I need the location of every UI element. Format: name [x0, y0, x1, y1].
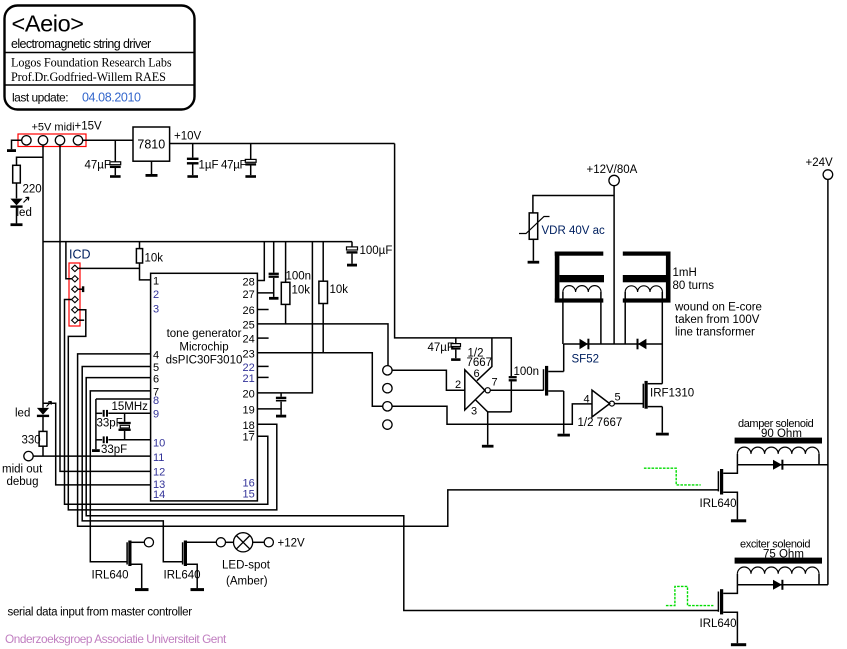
wire +10V down and across	[395, 144, 512, 377]
transistor Q6 IRL640 exciter	[718, 585, 737, 644]
svg-text:21: 21	[243, 373, 255, 385]
ground under Q2	[191, 588, 205, 591]
inductor core right half	[623, 252, 671, 303]
svg-text:27: 27	[243, 289, 255, 301]
crystal 15MHz symbol	[119, 413, 131, 440]
svg-text:1mH: 1mH	[673, 267, 697, 279]
resistor 10k third	[319, 242, 328, 353]
capacitor 100uF on +5V rail	[347, 242, 358, 266]
led D2	[37, 401, 52, 416]
wire pin7 to serial gate	[90, 391, 150, 562]
connector pin circle 4	[73, 136, 82, 145]
svg-text:23: 23	[243, 349, 255, 361]
wire pin6 to exciter gate bus	[86, 378, 718, 611]
capacitor 100n pin19 decoupling	[276, 393, 286, 416]
diode exciter flyback	[773, 580, 782, 590]
ground under VDR	[528, 261, 540, 264]
svg-text:26: 26	[243, 305, 255, 317]
wire resistor 330 to midi node	[42, 446, 44, 456]
led D1	[10, 197, 28, 206]
svg-text:debug: debug	[7, 476, 39, 488]
wire inverter1 ground	[487, 412, 489, 445]
varistor VDR	[519, 213, 550, 261]
wire midi out to pin11	[33, 455, 150, 457]
wire lamp to +12V circle	[253, 541, 265, 543]
svg-text:4: 4	[153, 350, 159, 362]
wire inverter1 output to gate	[490, 389, 543, 391]
svg-text:17: 17	[243, 432, 255, 444]
ground under Q6	[731, 643, 746, 646]
wire pin20 to +5V rail	[257, 242, 312, 393]
svg-text:1µF: 1µF	[199, 160, 219, 172]
wire pin5 to ledspot gate bus	[82, 367, 182, 562]
waveform damper step	[644, 468, 701, 485]
svg-text:10k: 10k	[330, 284, 349, 296]
wire Q3 drain riser	[563, 344, 565, 372]
inverter1 output bubble	[485, 388, 490, 393]
IC U1 dsPIC30F3010 box	[151, 273, 258, 501]
regulator 7810	[133, 127, 170, 161]
wire connector pin3 vertical to pin12 run	[60, 145, 151, 471]
wire exciter coil left lead	[736, 574, 738, 585]
svg-text:led: led	[15, 408, 30, 420]
connector column circle 1	[383, 366, 392, 375]
svg-text:SF52: SF52	[572, 354, 600, 366]
wire IRF1310 drain riser	[661, 344, 663, 384]
connector ICD red outline	[69, 263, 80, 326]
transistor Q3 gate driver FET	[544, 366, 564, 396]
wire pin6 diagonal feed	[477, 338, 492, 381]
svg-text:24: 24	[243, 334, 255, 346]
capacitor 100n bootstrap	[509, 377, 517, 412]
connector J1 red outline	[18, 134, 86, 147]
ground under IRF1310	[656, 433, 669, 436]
svg-text:IRL640: IRL640	[92, 570, 129, 582]
svg-text:<Aeio>: <Aeio>	[12, 11, 84, 37]
wire circle1 to inverter input pin2	[392, 370, 465, 390]
svg-text:80 turns: 80 turns	[673, 280, 715, 292]
ICD pin diamond 5	[72, 307, 79, 313]
diode SF52 right	[638, 339, 647, 350]
svg-text:+24V: +24V	[806, 157, 834, 169]
svg-text:last update:: last update:	[12, 91, 68, 105]
svg-text:5: 5	[153, 362, 159, 374]
exciter solenoid coil	[737, 567, 819, 574]
svg-text:4: 4	[584, 394, 590, 406]
svg-text:LED-spot: LED-spot	[222, 560, 271, 572]
svg-text:10k: 10k	[145, 253, 164, 265]
ground under crystal loop	[92, 449, 100, 452]
wire pin19 to cap ground	[257, 408, 281, 410]
svg-text:+15V: +15V	[75, 121, 103, 133]
connector pin circle 3	[55, 136, 64, 145]
capacitor 47uF input	[110, 140, 121, 176]
exciter solenoid body bar	[735, 558, 822, 564]
svg-text:+5V midi: +5V midi	[32, 122, 75, 134]
wire led2 to resistor 330	[42, 416, 44, 432]
transistor Q5 IRL640 damper	[718, 465, 737, 520]
coil left winding	[563, 286, 601, 292]
svg-text:7810: 7810	[137, 138, 165, 152]
serial output terminal circle	[144, 538, 153, 547]
connector column circle 2	[383, 384, 392, 393]
svg-text:220: 220	[23, 184, 42, 196]
connector column circle 3	[383, 402, 392, 411]
svg-text:19: 19	[243, 405, 255, 417]
svg-text:2: 2	[153, 289, 159, 301]
wire +24V rail	[827, 179, 829, 584]
svg-text:Onderzoeksgroep Associatie Uni: Onderzoeksgroep Associatie Universiteit …	[5, 632, 227, 646]
svg-text:25: 25	[243, 320, 255, 332]
waveform exciter pulse	[666, 586, 714, 605]
wire pin22 stub	[257, 365, 268, 367]
svg-text:line transformer: line transformer	[675, 327, 755, 339]
ground under led1	[11, 223, 23, 226]
wire damper coil left lead	[736, 454, 738, 465]
wire pin23 to circle3	[257, 353, 382, 407]
svg-text:8: 8	[153, 395, 159, 407]
svg-text:100n: 100n	[286, 271, 312, 283]
svg-text:electromagnetic string driver: electromagnetic string driver	[11, 37, 151, 51]
ICD pin diamond 1	[72, 265, 79, 271]
transistor Q4 IRF1310	[643, 381, 662, 409]
wire pin28 to +5V rail	[257, 242, 264, 281]
wire inverter2 output to IRF1310 gate	[614, 403, 643, 405]
wire pin21 stub	[257, 376, 268, 378]
op-amp U2 inverter triangle	[465, 370, 485, 410]
resistor 220	[13, 165, 21, 183]
capacitor 1uF	[187, 144, 199, 177]
capacitor 33pF upper	[104, 410, 107, 417]
wire pin10 segments	[96, 439, 151, 441]
svg-text:20: 20	[243, 389, 255, 401]
wire pin3 diagonal to ground node	[476, 400, 512, 412]
wire SF52 line	[564, 343, 663, 345]
connector pin circle 1	[22, 136, 31, 145]
svg-text:9: 9	[153, 409, 159, 421]
svg-text:47µF: 47µF	[221, 160, 247, 172]
wire +5V rail	[43, 241, 352, 243]
svg-text:ICD: ICD	[69, 248, 91, 262]
svg-text:3: 3	[471, 406, 477, 418]
svg-text:(Amber): (Amber)	[226, 576, 268, 588]
ground under inverter1	[482, 445, 494, 448]
svg-text:5: 5	[615, 392, 621, 404]
wire coil left lead B	[600, 292, 602, 344]
wire coil right lead A	[624, 292, 626, 344]
svg-text:IRL640: IRL640	[164, 570, 201, 582]
wire damper coil right lead	[818, 454, 820, 465]
inverter2 output bubble	[609, 401, 614, 406]
wire pin27 to 100n node	[257, 292, 273, 294]
transistor Q1 IRL640 serial	[127, 541, 144, 589]
wire +10V rail	[170, 143, 395, 145]
inductor core left half	[555, 252, 604, 303]
svg-text:wound on E-core: wound on E-core	[674, 302, 762, 314]
coil right winding	[625, 286, 662, 292]
svg-text:04.08.2010: 04.08.2010	[82, 91, 141, 105]
svg-text:10k: 10k	[292, 285, 311, 297]
wire ICD6 stub	[78, 319, 84, 321]
title block frame	[5, 6, 195, 110]
svg-text:serial data input from master: serial data input from master controller	[8, 607, 193, 619]
capacitor 100n near pin27	[269, 242, 279, 299]
svg-text:6: 6	[153, 374, 159, 386]
svg-text:2: 2	[455, 379, 461, 391]
wire damper flyback line	[737, 464, 828, 466]
svg-text:IRL640: IRL640	[700, 618, 737, 630]
svg-text:7: 7	[492, 377, 498, 389]
wire pin25 to circle1	[257, 324, 388, 366]
svg-text:VDR 40V ac: VDR 40V ac	[542, 225, 606, 237]
wire ICD3 stub with key	[78, 286, 83, 292]
wire branch to resistor 220	[17, 157, 44, 165]
wire exciter coil right lead	[818, 574, 820, 585]
wire pin9 segments	[96, 412, 151, 414]
resistor 10k second	[281, 242, 290, 324]
svg-text:+12V: +12V	[278, 538, 306, 550]
capacitor 33pF lower	[104, 436, 107, 443]
wire exciter flyback line	[737, 584, 828, 586]
wire coil left lead A	[562, 292, 564, 344]
svg-text:6: 6	[474, 368, 480, 380]
svg-text:18: 18	[243, 420, 255, 432]
svg-text:100µF: 100µF	[360, 245, 393, 257]
wire +5V vertical from connector pin2	[42, 145, 44, 408]
svg-text:1/2 7667: 1/2 7667	[578, 417, 623, 429]
damper solenoid body bar	[735, 438, 822, 444]
midi out terminal circle	[24, 451, 33, 460]
resistor 330	[39, 431, 47, 446]
wire circle to lamp	[226, 541, 234, 543]
ground under Q5	[731, 519, 746, 522]
ICD pin diamond 3	[72, 286, 79, 292]
ground under connector pin1	[7, 149, 16, 152]
capacitor 47uF on +10V	[245, 144, 256, 177]
svg-text:IRF1310: IRF1310	[650, 388, 694, 400]
+12V/80A terminal circle	[609, 175, 619, 185]
capacitor 47uF driver	[451, 338, 460, 360]
ground under Q3	[558, 434, 570, 437]
op-amp U3 inverter2 triangle	[592, 390, 610, 417]
ground under 7810	[146, 161, 158, 175]
ICD pin diamond 6	[72, 317, 79, 323]
svg-text:+12V/80A: +12V/80A	[587, 164, 638, 176]
damper solenoid coil	[737, 447, 819, 454]
wire ICD5 to pin18 bus	[68, 310, 276, 510]
wire branch to VDR	[533, 196, 614, 213]
svg-text:tone generator: tone generator	[167, 328, 242, 340]
ledspot left terminal circle	[216, 538, 225, 547]
wire connector pin1 to ground	[12, 140, 22, 149]
svg-text:midi out: midi out	[2, 464, 43, 476]
wire ICD4 to pin17 bus	[65, 300, 268, 505]
connector column circle 4	[383, 420, 392, 429]
wire pin24 stub	[257, 337, 268, 339]
lamp LED-spot symbol	[234, 533, 253, 552]
ICD pin diamond 2	[72, 276, 79, 282]
wire led1 to ground	[16, 207, 18, 224]
resistor 10k pin1 pullup	[136, 242, 150, 280]
wire ICD1 to 10k pin1 node	[78, 267, 139, 269]
svg-text:Microchip: Microchip	[179, 342, 228, 354]
wire ICD2 to +5V rail	[66, 242, 72, 279]
wire pin13 to +5V branch	[43, 403, 151, 485]
IC pin number 17 with overbar	[243, 431, 255, 443]
wire resistor to led1	[16, 183, 18, 198]
svg-text:28: 28	[243, 277, 255, 289]
svg-text:14: 14	[153, 489, 165, 501]
svg-text:330: 330	[22, 435, 41, 447]
transistor Q2 IRL640 ledspot	[183, 541, 217, 589]
svg-text:15: 15	[243, 489, 255, 501]
crystal network: wire pin8 to loop	[96, 398, 151, 400]
+12V terminal circle small	[264, 538, 273, 547]
svg-text:Logos Foundation Research Labs: Logos Foundation Research Labs	[11, 56, 172, 70]
svg-text:1: 1	[153, 276, 159, 288]
wire circle3 to inverter2 input	[392, 404, 592, 424]
wire connector pin4 to 7810 input	[83, 139, 133, 141]
svg-text:15MHz: 15MHz	[112, 401, 149, 413]
svg-text:10: 10	[153, 438, 165, 450]
svg-text:taken from 100V: taken from 100V	[675, 314, 760, 326]
wire crystal loop left vertical	[95, 399, 97, 449]
wire +12V center feed	[613, 186, 615, 344]
ground under Q1	[135, 588, 149, 591]
wire pin4 to damper gate bus	[78, 354, 719, 526]
diode SF52 left	[580, 339, 589, 350]
diode damper flyback	[773, 460, 782, 470]
svg-text:47µF: 47µF	[85, 160, 111, 172]
svg-text:Prof.Dr.Godfried-Willem RAES: Prof.Dr.Godfried-Willem RAES	[11, 70, 166, 84]
svg-text:3: 3	[153, 304, 159, 316]
svg-text:33pF: 33pF	[101, 444, 127, 456]
wire Q3 source to ground	[563, 391, 565, 434]
svg-text:led: led	[17, 207, 32, 219]
wire IRF1310 source to ground	[661, 407, 663, 433]
svg-text:+10V: +10V	[174, 131, 202, 143]
wire pin26 stub	[257, 309, 268, 311]
svg-text:12: 12	[153, 467, 165, 479]
ICD pin diamond 4	[72, 296, 79, 302]
svg-text:11: 11	[153, 452, 164, 464]
svg-text:dsPIC30F3010: dsPIC30F3010	[166, 355, 243, 367]
svg-text:100n: 100n	[514, 366, 540, 378]
svg-text:47µF: 47µF	[428, 342, 454, 354]
wire coil right lead B	[661, 292, 663, 344]
svg-text:IRL640: IRL640	[700, 498, 737, 510]
connector pin circle 2	[38, 136, 47, 145]
+24V terminal circle	[823, 170, 833, 180]
